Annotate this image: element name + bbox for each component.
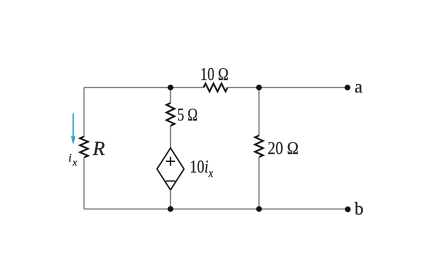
wire bottom horizontal	[84, 208, 348, 210]
wire right vertical lower	[258, 157, 260, 209]
current arrow ix	[72, 114, 74, 138]
resistor 10ohm zigzag	[204, 84, 228, 92]
svg-text:10 Ω: 10 Ω	[200, 64, 228, 84]
terminal a dot	[345, 85, 351, 91]
junction node bottom right	[256, 206, 262, 212]
resistor 5ohm zigzag	[167, 103, 175, 126]
svg-text:a: a	[355, 77, 363, 97]
svg-text:R: R	[92, 138, 105, 160]
junction node top right	[256, 85, 262, 91]
wire top-right horizontal	[228, 87, 348, 89]
svg-text:x: x	[72, 158, 78, 169]
resistor 20ohm zigzag	[255, 136, 263, 158]
svg-text:i: i	[68, 153, 71, 165]
wire left vertical lower	[83, 158, 85, 210]
junction node bottom middle	[168, 206, 174, 212]
svg-text:5 Ω: 5 Ω	[177, 105, 198, 125]
svg-text:10ix: 10ix	[190, 157, 214, 181]
plus sign inside source	[166, 157, 175, 166]
wire middle vertical lower	[170, 190, 172, 209]
wire middle vertical upper	[170, 88, 172, 104]
wire right vertical upper	[258, 88, 260, 137]
svg-text:b: b	[355, 199, 364, 219]
resistor R zigzag	[80, 137, 88, 158]
minus sign inside source	[166, 180, 176, 182]
svg-text:20 Ω: 20 Ω	[268, 138, 299, 158]
wire middle vertical mid	[170, 126, 172, 148]
terminal b dot	[345, 206, 351, 212]
junction node top middle	[168, 85, 174, 91]
wire top-left horizontal	[84, 87, 204, 89]
dependent source U1 diamond	[157, 148, 184, 190]
wire left vertical upper	[83, 88, 85, 138]
